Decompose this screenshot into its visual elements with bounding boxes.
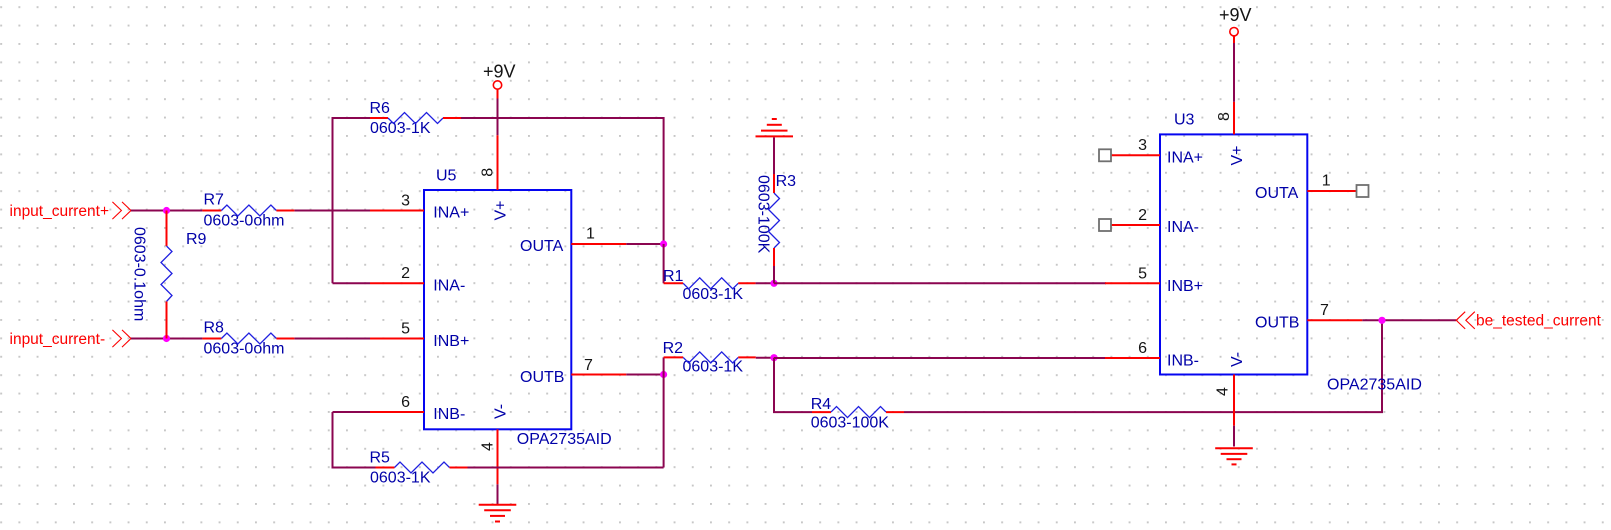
junction OUTA node <box>660 240 667 247</box>
U3 pin 4 <box>1215 375 1235 426</box>
wire input_current+ to R7 <box>131 210 202 212</box>
wire R6 feedback loop <box>333 118 371 283</box>
svg-text:0603-1K: 0603-1K <box>370 120 431 137</box>
svg-text:OUTA: OUTA <box>1255 185 1299 202</box>
resistor R7 0603-0ohm <box>202 192 294 230</box>
svg-text:4: 4 <box>1215 387 1232 396</box>
svg-text:OUTB: OUTB <box>1255 314 1299 331</box>
svg-text:4: 4 <box>480 442 497 451</box>
U3 pin 8 <box>1216 102 1234 135</box>
svg-text:input_current+: input_current+ <box>10 203 110 220</box>
wire junction down to R4 <box>774 358 812 412</box>
junction OUTB node <box>660 371 667 378</box>
svg-text:6: 6 <box>1138 340 1147 357</box>
svg-text:5: 5 <box>1138 265 1147 282</box>
svg-text:INB-: INB- <box>433 406 465 423</box>
svg-text:2: 2 <box>1138 207 1147 224</box>
svg-text:1: 1 <box>1322 173 1331 190</box>
svg-text:6: 6 <box>401 394 410 411</box>
svg-text:7: 7 <box>1320 302 1329 319</box>
svg-text:1: 1 <box>586 226 595 243</box>
svg-text:V-: V- <box>1229 352 1246 367</box>
op-amp U5 <box>424 168 612 449</box>
U3 pin 7 <box>1307 302 1362 320</box>
U5 pin 4 <box>480 429 498 484</box>
svg-text:0603-100K: 0603-100K <box>755 175 772 254</box>
U5 pin 2 <box>370 265 424 283</box>
op-amp U3 <box>1160 111 1422 393</box>
resistor R4 0603-100K <box>811 396 904 431</box>
ground below U5 <box>479 505 517 522</box>
resistor R2 0603-1K <box>663 340 756 376</box>
U5 pin 3 <box>370 193 424 211</box>
svg-text:R2: R2 <box>663 340 684 357</box>
wire OUTA node down to R1 <box>663 244 665 283</box>
wire +9V to U3 pin 8 <box>1233 43 1235 102</box>
svg-text:0603-1K: 0603-1K <box>683 286 744 303</box>
ground above R3 <box>756 119 794 136</box>
resistor R6 0603-1K <box>370 100 462 137</box>
U3 pin 1 <box>1307 173 1368 197</box>
svg-text:INB-: INB- <box>1167 352 1199 369</box>
svg-text:3: 3 <box>401 193 410 210</box>
svg-text:R3: R3 <box>776 173 797 190</box>
svg-text:R8: R8 <box>204 320 225 337</box>
svg-text:3: 3 <box>1138 137 1147 154</box>
resistor R5 0603-1K <box>370 450 468 487</box>
svg-text:R9: R9 <box>186 231 207 248</box>
svg-text:OUTA: OUTA <box>520 238 564 255</box>
U5 pin 6 <box>370 394 424 412</box>
svg-text:7: 7 <box>584 357 593 374</box>
wire junction to U3 pin 5 <box>774 282 1106 284</box>
wire ground to R3 <box>773 137 775 174</box>
wire OUTB node vertical R2/R5 <box>663 357 665 467</box>
wire +9V to U5 pin 8 <box>497 99 499 136</box>
U3 pin 3 <box>1099 137 1160 161</box>
wire R5 to OUTB vertical <box>468 467 664 469</box>
wire R4 to be_tested node <box>904 320 1382 412</box>
svg-text:INA-: INA- <box>1167 219 1199 236</box>
wire INA- stub <box>333 282 371 284</box>
svg-text:0603-0.1ohm: 0603-0.1ohm <box>131 227 148 321</box>
svg-text:OUTB: OUTB <box>520 369 564 386</box>
wire junction to U3 pin 6 <box>774 357 1106 359</box>
wire OUTA to junction <box>626 243 663 245</box>
port be_tested_current <box>1456 312 1601 330</box>
junction at input+/R9 <box>163 207 170 214</box>
svg-text:5: 5 <box>401 321 410 338</box>
resistor R3 0603-100K <box>755 173 797 266</box>
svg-text:0603-1K: 0603-1K <box>370 469 431 486</box>
svg-text:2: 2 <box>401 265 410 282</box>
resistor R1 0603-1K <box>663 268 756 303</box>
svg-text:INA-: INA- <box>433 277 465 294</box>
svg-text:INB+: INB+ <box>1167 278 1203 295</box>
wire input_current- to R8 <box>131 338 202 340</box>
U3 pin 5 <box>1105 265 1160 283</box>
wire R2 to junction <box>756 357 774 359</box>
svg-text:U5: U5 <box>436 168 457 185</box>
power +9V for U3 <box>1219 5 1252 43</box>
U5 pin 5 <box>370 321 424 339</box>
svg-text:V+: V+ <box>493 200 510 220</box>
wire R3 to junction <box>773 266 775 283</box>
svg-text:V-: V- <box>493 404 510 419</box>
ground below U3 <box>1215 448 1253 464</box>
svg-text:+9V: +9V <box>483 62 516 82</box>
wire R6 right to OUTA <box>461 118 664 244</box>
svg-text:INA+: INA+ <box>433 205 469 222</box>
wire R8 to U5 pin 5 <box>294 338 370 340</box>
svg-text:R1: R1 <box>663 268 684 285</box>
svg-text:U3: U3 <box>1174 111 1195 128</box>
svg-text:0603-0ohm: 0603-0ohm <box>204 341 285 358</box>
svg-text:8: 8 <box>480 168 497 177</box>
port input_current+ <box>10 202 132 220</box>
wire R7 to U5 pin 3 <box>294 210 370 212</box>
junction R1/R3 node <box>770 280 777 287</box>
resistor R8 0603-0ohm <box>202 320 294 358</box>
svg-text:R4: R4 <box>811 396 832 413</box>
svg-text:INA+: INA+ <box>1167 150 1203 167</box>
svg-text:INB+: INB+ <box>433 333 469 350</box>
wire OUTB to junction <box>626 374 663 376</box>
svg-text:0603-100K: 0603-100K <box>811 415 890 432</box>
resistor R9 0603-0.1ohm <box>131 211 207 339</box>
port input_current- <box>10 330 132 348</box>
U5 pin 1 <box>571 226 626 245</box>
svg-text:8: 8 <box>1216 112 1233 121</box>
junction be_tested node <box>1378 317 1385 324</box>
svg-text:be_tested_current: be_tested_current <box>1476 313 1602 330</box>
wire R1 to junction <box>756 282 774 284</box>
svg-text:input_current-: input_current- <box>10 331 106 348</box>
svg-text:R5: R5 <box>370 450 391 467</box>
wire INB- to R5 <box>333 411 371 413</box>
U3 pin 6 <box>1105 340 1160 358</box>
svg-text:OPA2735AID: OPA2735AID <box>1327 377 1422 394</box>
wire U3 pin 7 to port <box>1362 319 1456 321</box>
svg-text:R6: R6 <box>370 100 391 117</box>
junction at input-/R9 <box>163 335 170 342</box>
power +9V for U5 <box>483 62 516 99</box>
wire U3 pin 4 to ground <box>1233 426 1235 447</box>
U5 pin 8 <box>480 135 498 190</box>
svg-text:R7: R7 <box>204 192 225 209</box>
U5 pin 7 <box>571 357 626 375</box>
junction R2/R4 node <box>770 354 777 361</box>
wire INB- down to R5 <box>333 412 376 468</box>
svg-text:OPA2735AID: OPA2735AID <box>517 431 612 448</box>
U3 pin 2 <box>1099 207 1160 231</box>
svg-text:V+: V+ <box>1229 145 1246 165</box>
wire U5 pin 4 to ground <box>497 484 499 504</box>
svg-text:0603-0ohm: 0603-0ohm <box>204 213 285 230</box>
svg-text:+9V: +9V <box>1219 5 1252 25</box>
